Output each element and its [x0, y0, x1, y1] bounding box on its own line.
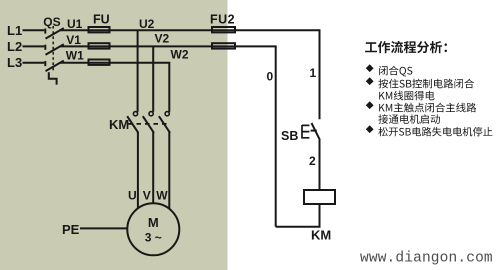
switch QS mechanical link (dashed): [52, 26, 54, 72]
label FU2: [210, 13, 235, 27]
svg-text:FU: FU: [93, 13, 110, 27]
node W1: [66, 49, 84, 63]
motor label 3~: [145, 231, 162, 245]
svg-text:0: 0: [267, 70, 274, 84]
node V2: [155, 32, 170, 46]
wire U2 contact to motor: [137, 132, 139, 209]
fuse FU pole 3: [89, 60, 110, 65]
contactor KM main contact pole 2: [143, 112, 154, 133]
svg-text:3 ~: 3 ~: [145, 231, 162, 245]
svg-text:W: W: [156, 189, 168, 203]
analysis bullet 2 line 1: [366, 77, 474, 88]
node U1: [67, 17, 83, 31]
svg-text:1: 1: [310, 66, 317, 80]
label SB: [281, 129, 298, 143]
contactor KM link (dashed): [128, 123, 167, 125]
wire V2 dropper: [152, 46, 154, 112]
pushbutton SB movable contact bar: [311, 130, 317, 132]
svg-text:SB: SB: [281, 129, 298, 143]
wire V2 contact to motor: [152, 132, 154, 203]
switch QS pole 3 contact: [44, 61, 46, 66]
svg-text:L1: L1: [7, 23, 22, 38]
analysis bullet 3 line 1: [366, 101, 476, 112]
svg-text:V2: V2: [155, 32, 170, 46]
wire QS to W2 dropper (L3 phase): [60, 63, 170, 112]
fuse FU pole 2: [89, 43, 110, 48]
wire KM coil to net 0: [276, 204, 320, 227]
label KM (main contacts): [109, 117, 129, 132]
svg-text:U: U: [128, 189, 137, 203]
wire L1 to QS: [23, 29, 45, 31]
svg-text:V1: V1: [66, 33, 81, 47]
switch QS pole 1 blade: [46, 28, 64, 38]
node U2: [139, 17, 155, 31]
wire U2 dropper: [137, 30, 139, 112]
svg-text:V: V: [143, 189, 151, 203]
svg-text:FU2: FU2: [210, 13, 235, 27]
wire PE to motor: [80, 227, 128, 229]
terminal W: [156, 189, 168, 203]
svg-text:www.diangon.com: www.diangon.com: [360, 251, 493, 267]
svg-text:KM: KM: [109, 117, 129, 132]
wire L2 to QS: [23, 45, 45, 47]
terminal U: [128, 189, 137, 203]
switch QS handle: [49, 72, 57, 84]
pushbutton SB blade: [312, 123, 320, 140]
node W2: [171, 48, 189, 62]
fuse FU2 lower: [212, 43, 235, 48]
node PE: [62, 222, 80, 237]
net number 2: [309, 154, 316, 168]
contactor KM main contact pole 3: [159, 112, 170, 133]
net number 1: [310, 66, 317, 80]
svg-text:2: 2: [309, 154, 316, 168]
svg-text:U1: U1: [67, 17, 83, 31]
fuse FU2 upper: [212, 27, 235, 32]
contactor KM main contact pole 1: [127, 112, 138, 133]
svg-text:QS: QS: [43, 15, 60, 29]
schematic background panel: [0, 0, 228, 270]
svg-text:L3: L3: [7, 55, 22, 70]
pushbutton SB actuator: [302, 125, 309, 139]
analysis bullet 1: [366, 64, 413, 76]
switch QS pole 2 blade: [46, 44, 64, 55]
coil KM: [304, 190, 335, 204]
wire L3 to QS: [23, 62, 45, 64]
label QS: [43, 15, 60, 29]
label FU: [93, 13, 110, 27]
svg-text:U2: U2: [139, 17, 155, 31]
analysis bullet 2 line 2: [379, 91, 434, 101]
wire QS to FU2 and control branch 0 (L2 phase): [60, 46, 276, 226]
wire QS to FU2 and control branch 1 (L1 phase): [60, 30, 320, 119]
analysis bullet 3 line 2: [378, 114, 440, 124]
svg-text:W2: W2: [171, 48, 189, 62]
node L2: [7, 39, 22, 54]
wire W2 contact to motor: [168, 132, 170, 209]
svg-text:L2: L2: [7, 39, 22, 54]
analysis bullet 4: [366, 125, 493, 136]
switch QS pole 3 blade: [46, 61, 64, 72]
switch QS pole 1 contact: [44, 29, 46, 34]
label KM (coil): [311, 228, 331, 243]
node L3: [7, 55, 22, 70]
website watermark: [360, 251, 493, 267]
node L1: [7, 23, 22, 38]
terminal V: [143, 189, 151, 203]
svg-text:KM: KM: [311, 228, 331, 243]
svg-text:W1: W1: [66, 49, 84, 63]
motor M 3-phase: [127, 203, 179, 255]
node V1: [66, 33, 81, 47]
svg-text:PE: PE: [62, 222, 80, 237]
wire SB to KM coil: [319, 140, 321, 191]
analysis title: [365, 41, 447, 53]
net number 0: [267, 70, 274, 84]
fuse FU pole 1: [89, 27, 110, 32]
switch QS pole 2 contact: [44, 45, 46, 50]
svg-text:M: M: [148, 215, 159, 230]
motor label M: [148, 215, 159, 230]
